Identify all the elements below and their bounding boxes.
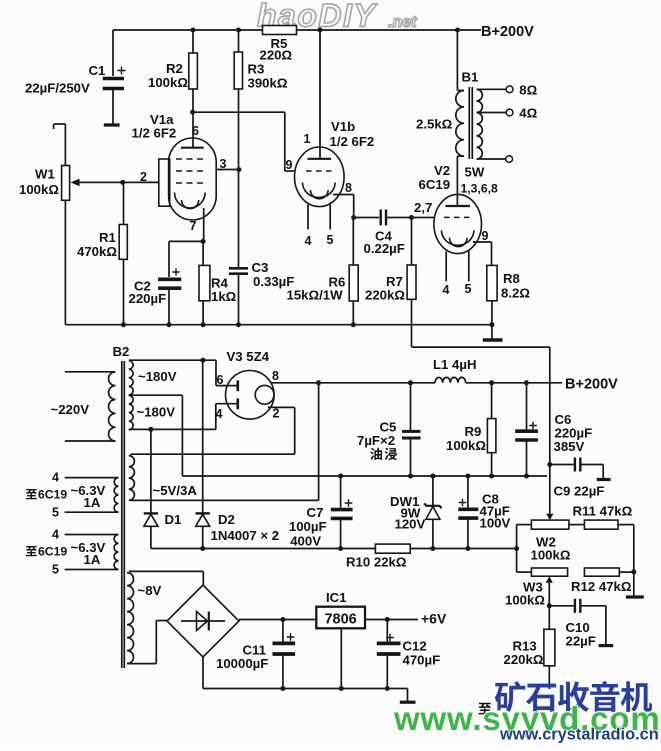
label W1 bbox=[19, 167, 59, 198]
svg-text:www.crystalradio.cn: www.crystalradio.cn bbox=[499, 726, 659, 744]
wire B+ top rail bbox=[113, 29, 481, 31]
potentiometer W3 bbox=[517, 568, 568, 606]
svg-text:220Ω: 220Ω bbox=[260, 48, 293, 63]
svg-text:100kΩ: 100kΩ bbox=[19, 182, 59, 197]
wire cathode pin7 V1a bbox=[203, 208, 205, 241]
node C12 neg bbox=[385, 686, 390, 691]
label C6 bbox=[554, 412, 593, 454]
node C7 neg bbox=[338, 546, 343, 551]
svg-text:B+200V: B+200V bbox=[565, 377, 618, 393]
label C4 bbox=[364, 229, 405, 257]
svg-text:1: 1 bbox=[304, 132, 311, 146]
label 8V bbox=[138, 583, 162, 598]
svg-text:10000µF: 10000µF bbox=[216, 656, 268, 671]
svg-text:C7: C7 bbox=[307, 505, 324, 520]
wire pin6 V3 bbox=[216, 360, 238, 385]
transformer B1 core bbox=[469, 87, 472, 159]
svg-text:5: 5 bbox=[52, 563, 59, 577]
tube V1b heater stubs bbox=[308, 203, 330, 230]
wire ground rail bbox=[65, 324, 492, 326]
rectifier bridge bbox=[167, 571, 239, 657]
label pin7 V1a bbox=[190, 219, 197, 233]
node C8 neg bbox=[465, 546, 470, 551]
svg-text:15kΩ/1W: 15kΩ/1W bbox=[287, 288, 344, 303]
resistor R6 bbox=[349, 218, 358, 325]
label C7 bbox=[289, 505, 327, 549]
svg-text:4: 4 bbox=[443, 283, 450, 297]
resistor R4 bbox=[199, 241, 210, 324]
svg-text:7806: 7806 bbox=[324, 612, 356, 628]
wire 180V centertap bbox=[129, 395, 183, 476]
label C3 bbox=[252, 260, 295, 289]
svg-text:1kΩ: 1kΩ bbox=[211, 289, 237, 304]
label pin3 V1a bbox=[220, 157, 227, 171]
node D2 neg bbox=[200, 546, 205, 551]
zener DW1 bbox=[424, 474, 441, 549]
capacitor C3 bbox=[229, 268, 248, 324]
tube V2 envelope bbox=[434, 194, 482, 253]
transformer B1 primary bbox=[456, 30, 464, 156]
label zhi bottom bbox=[479, 703, 491, 715]
label 180V-2 bbox=[137, 405, 176, 420]
label 2.5k bbox=[416, 117, 453, 132]
wire tap common bbox=[477, 156, 513, 163]
transformer B2 core bbox=[122, 361, 125, 668]
label 1368 bbox=[461, 182, 498, 196]
svg-text:7µF×2: 7µF×2 bbox=[357, 433, 395, 448]
label pin1 V1b bbox=[304, 132, 311, 146]
node rail junction R2 bbox=[191, 28, 196, 33]
wire bridge plus rail bbox=[239, 620, 316, 622]
svg-text:R8: R8 bbox=[503, 271, 520, 286]
svg-text:6C19: 6C19 bbox=[38, 545, 67, 559]
label R5 bbox=[260, 36, 293, 63]
label 220V bbox=[51, 402, 90, 417]
label R7 bbox=[365, 274, 405, 303]
wire plate V2 bbox=[456, 156, 458, 206]
label R9 bbox=[446, 424, 486, 453]
label pin8 V1b bbox=[345, 181, 352, 195]
label C8 bbox=[480, 492, 511, 531]
svg-text:6C19: 6C19 bbox=[419, 177, 451, 192]
svg-text:D1: D1 bbox=[165, 512, 182, 527]
wire bridge neg rail bbox=[203, 657, 408, 689]
wire input bbox=[54, 124, 66, 166]
svg-text:V3 5Z4: V3 5Z4 bbox=[227, 349, 270, 364]
svg-text:4: 4 bbox=[52, 528, 59, 542]
node IC1 neg bbox=[339, 686, 344, 691]
resistor R2 bbox=[189, 30, 198, 112]
label D2 bbox=[218, 512, 235, 527]
node D2 tap bbox=[200, 358, 205, 363]
potentiometer W2 bbox=[517, 514, 569, 529]
label 1N4007 bbox=[211, 528, 280, 543]
node C11 neg bbox=[280, 686, 285, 691]
label 180V-1 bbox=[138, 369, 177, 384]
svg-text:22µF/250V: 22µF/250V bbox=[25, 81, 90, 96]
label R12 bbox=[571, 579, 632, 594]
tube V1b envelope bbox=[295, 147, 345, 207]
capacitor C2 bbox=[158, 241, 203, 324]
transformer B2 winding 6.3V-1 bbox=[65, 478, 119, 513]
label C11 bbox=[216, 643, 268, 672]
svg-text:C12: C12 bbox=[403, 639, 427, 654]
label 5W bbox=[465, 165, 485, 180]
transformer B2 winding 180V-1 bbox=[129, 360, 216, 395]
svg-text:8.2Ω: 8.2Ω bbox=[501, 286, 530, 301]
label V1b bbox=[330, 119, 375, 149]
capacitor C11 bbox=[273, 620, 296, 689]
resistor R7 bbox=[407, 218, 416, 348]
svg-text:8: 8 bbox=[345, 181, 352, 195]
label IC1 bbox=[326, 590, 347, 605]
capacitor C5 bbox=[402, 383, 421, 476]
watermark haoDIY bbox=[257, 0, 417, 34]
wire B+ rail after V3 bbox=[272, 382, 436, 384]
node gnd C3 bbox=[236, 322, 241, 327]
label C5 bbox=[357, 420, 397, 461]
node cathode junction V1a bbox=[201, 239, 206, 244]
node 5V B+ junction bbox=[316, 380, 321, 385]
svg-text:100kΩ: 100kΩ bbox=[531, 548, 571, 563]
svg-text:385V: 385V bbox=[554, 439, 585, 454]
label 4ohm bbox=[519, 106, 537, 121]
svg-text:7: 7 bbox=[190, 219, 197, 233]
label pin2 V3 bbox=[273, 407, 280, 421]
svg-text:100µF: 100µF bbox=[289, 519, 327, 534]
svg-text:100kΩ: 100kΩ bbox=[148, 75, 188, 90]
label B1 bbox=[462, 70, 479, 85]
svg-text:.net: .net bbox=[388, 14, 417, 31]
wire W2W3 left bbox=[516, 525, 518, 573]
resistor R8 bbox=[487, 265, 497, 324]
capacitor C7 bbox=[331, 474, 353, 549]
node DW1 neg bbox=[430, 546, 435, 551]
svg-text:390kΩ: 390kΩ bbox=[248, 76, 288, 91]
capacitor C1 bbox=[103, 30, 126, 124]
svg-text:4Ω: 4Ω bbox=[519, 106, 537, 121]
node gnd R1 bbox=[121, 322, 126, 327]
potentiometer W1 bbox=[62, 166, 123, 325]
node C6 bottom bbox=[524, 474, 529, 479]
wire grid V2 bbox=[412, 217, 435, 219]
svg-text:2,7: 2,7 bbox=[414, 200, 432, 215]
tube V1b cathode bbox=[303, 183, 336, 199]
node C4 left junction bbox=[351, 215, 356, 220]
svg-text:4: 4 bbox=[216, 407, 223, 421]
svg-text:100kΩ: 100kΩ bbox=[446, 438, 486, 453]
tube V2 cathode bbox=[442, 230, 474, 246]
ground C9 bbox=[597, 478, 611, 481]
label V2 bbox=[419, 163, 451, 192]
node rail junction V1b bbox=[318, 28, 323, 33]
node screen junction bbox=[236, 167, 241, 172]
label C10 bbox=[566, 620, 596, 649]
label R4 bbox=[211, 276, 237, 305]
tube V2 plate bar bbox=[446, 205, 471, 207]
transformer B2 primary 220V bbox=[65, 372, 116, 441]
node rail junction R3 bbox=[236, 28, 241, 33]
wire IC1 gnd pin bbox=[340, 628, 342, 688]
label pins45 V2 bbox=[443, 282, 472, 297]
label pins27 V2 bbox=[414, 200, 432, 215]
tube V1b grid dashed bbox=[306, 170, 333, 172]
node C11 top bbox=[280, 617, 285, 622]
svg-text:C9 22µF: C9 22µF bbox=[554, 484, 605, 499]
resistor R1 bbox=[119, 182, 127, 324]
svg-text:4: 4 bbox=[305, 234, 312, 248]
tube V1b plate bar bbox=[308, 158, 332, 160]
svg-text:22µF: 22µF bbox=[566, 634, 596, 649]
tube V2 heater stubs bbox=[446, 250, 469, 281]
resistor R3 bbox=[234, 30, 242, 89]
node gnd R6 bbox=[351, 322, 356, 327]
diode D1 bbox=[144, 429, 158, 548]
svg-text:C1: C1 bbox=[89, 63, 106, 78]
svg-text:~220V: ~220V bbox=[51, 402, 90, 417]
svg-text:V1b: V1b bbox=[331, 119, 355, 134]
node R9 top bbox=[489, 380, 494, 385]
node C6 top bbox=[524, 380, 529, 385]
wire R3 down to C3 bbox=[238, 89, 240, 267]
resistor R13 bbox=[544, 606, 555, 689]
label C2 bbox=[129, 279, 167, 307]
label R13 bbox=[504, 639, 544, 668]
label R3 bbox=[248, 62, 288, 91]
tube V1a plate bar bbox=[181, 147, 204, 149]
svg-text:R11 47kΩ: R11 47kΩ bbox=[573, 504, 633, 519]
label pin8 V3 bbox=[272, 369, 279, 383]
svg-text:220µF: 220µF bbox=[129, 291, 167, 306]
resistor R5 bbox=[263, 26, 297, 35]
node R9 bottom bbox=[489, 474, 494, 479]
node neg W2 bbox=[514, 546, 519, 551]
resistor R11 bbox=[569, 520, 634, 529]
capacitor C9 bbox=[547, 458, 603, 479]
tube V2 grid dashed bbox=[444, 216, 470, 218]
svg-text:IC1: IC1 bbox=[326, 590, 347, 605]
svg-text:9: 9 bbox=[482, 229, 489, 243]
watermark green url bbox=[393, 700, 661, 737]
svg-text:R12 47kΩ: R12 47kΩ bbox=[571, 579, 632, 594]
wire psu ground line bbox=[182, 475, 547, 477]
node gnd R8 bbox=[489, 322, 494, 327]
tube V3 plate bars bbox=[237, 380, 240, 409]
svg-text:2.5kΩ: 2.5kΩ bbox=[416, 117, 453, 132]
svg-text:~180V: ~180V bbox=[137, 405, 176, 420]
svg-text:220kΩ: 220kΩ bbox=[365, 288, 405, 303]
wire R7 to bias bbox=[412, 347, 550, 514]
svg-text:5W: 5W bbox=[465, 165, 485, 180]
label V3 bbox=[227, 349, 270, 364]
wire negative rail bbox=[151, 548, 376, 550]
svg-text:1N4007 × 2: 1N4007 × 2 bbox=[211, 528, 280, 543]
tube V1a cathode bbox=[175, 193, 206, 209]
tube V3 cathode circle bbox=[255, 385, 274, 404]
label 5V3A bbox=[153, 483, 198, 498]
svg-text:9: 9 bbox=[286, 158, 293, 172]
svg-text:6: 6 bbox=[192, 124, 199, 138]
label D1 bbox=[165, 512, 182, 527]
label B2 bbox=[113, 344, 130, 359]
label +6V bbox=[421, 611, 447, 627]
label R11 bbox=[573, 504, 633, 519]
label pin9 V1b bbox=[286, 158, 293, 172]
svg-text:L1 4µH: L1 4µH bbox=[433, 357, 477, 372]
label B+200V top bbox=[481, 24, 534, 40]
svg-text:R1: R1 bbox=[99, 230, 116, 245]
node C4 right junction bbox=[409, 215, 414, 220]
watermark crystalradio url bbox=[499, 726, 659, 744]
wire V1a plate to V1b grid bbox=[193, 112, 295, 171]
node C5 bottom bbox=[408, 474, 413, 479]
svg-text:5: 5 bbox=[465, 282, 472, 296]
node V1a plate junction bbox=[190, 110, 195, 115]
node C12 top bbox=[385, 617, 390, 622]
capacitor C6 bbox=[515, 383, 538, 476]
svg-text:1/2 6F2: 1/2 6F2 bbox=[132, 126, 177, 141]
diode D2 bbox=[196, 360, 210, 548]
svg-text:0.22µF: 0.22µF bbox=[364, 241, 405, 256]
resistor R9 bbox=[487, 383, 496, 476]
svg-text:6: 6 bbox=[217, 373, 224, 387]
svg-text:W1: W1 bbox=[35, 167, 55, 182]
svg-text:2: 2 bbox=[140, 170, 147, 184]
inductor L1 bbox=[435, 377, 562, 382]
node gnd R4 bbox=[201, 322, 206, 327]
svg-text:1/2 6F2: 1/2 6F2 bbox=[330, 134, 375, 149]
label pins45 V1b bbox=[305, 233, 334, 248]
svg-text:2: 2 bbox=[273, 407, 280, 421]
label V1a bbox=[132, 112, 177, 141]
svg-text:~5V/3A: ~5V/3A bbox=[153, 483, 198, 498]
ground R12 bbox=[626, 595, 644, 598]
label R6 bbox=[287, 275, 346, 303]
ground C1 bbox=[104, 123, 120, 126]
svg-text:8: 8 bbox=[272, 369, 279, 383]
wire tap 8ohm bbox=[477, 86, 514, 93]
label R2 bbox=[148, 61, 188, 90]
label B+200V psu bbox=[565, 377, 618, 393]
wire pin4 V3 bbox=[216, 403, 238, 405]
capacitor C10 bbox=[549, 599, 606, 644]
svg-text:100V: 100V bbox=[480, 516, 511, 531]
svg-text:470kΩ: 470kΩ bbox=[77, 244, 117, 259]
svg-text:R2: R2 bbox=[166, 61, 183, 76]
svg-text:1A: 1A bbox=[84, 495, 101, 510]
label C12 bbox=[403, 639, 441, 668]
resistor R12 bbox=[584, 568, 633, 576]
transformer B2 winding 8V bbox=[127, 571, 203, 663]
label 6.3V-2 bbox=[26, 528, 106, 577]
label W2 bbox=[531, 535, 571, 563]
wire cathode pin9 V2 bbox=[473, 242, 492, 265]
capacitor C12 bbox=[377, 620, 401, 689]
label pin4 V3 bbox=[216, 407, 223, 421]
label DW1 bbox=[390, 494, 426, 532]
label R8 bbox=[501, 271, 530, 301]
svg-text:+6V: +6V bbox=[421, 611, 447, 627]
wire tap 4ohm bbox=[477, 109, 514, 116]
label pin6 V1a bbox=[192, 124, 199, 138]
wire 5V bottom to B+ bbox=[318, 383, 320, 501]
node D1 tap bbox=[148, 427, 153, 432]
svg-text:4: 4 bbox=[52, 471, 59, 485]
label C9 bbox=[554, 484, 605, 499]
label R1 bbox=[77, 230, 117, 259]
transformer B2 winding 6.3V-2 bbox=[65, 535, 119, 570]
transformer B2 winding 180V-2 bbox=[129, 395, 216, 429]
svg-text:5: 5 bbox=[52, 506, 59, 520]
tube V1a grids dashed bbox=[176, 159, 207, 183]
node rail junction B1 bbox=[455, 28, 460, 33]
svg-text:120V: 120V bbox=[395, 517, 426, 532]
wire plate pin1 V1b bbox=[319, 30, 321, 159]
ground amp bbox=[483, 325, 503, 340]
svg-text:100kΩ: 100kΩ bbox=[505, 593, 545, 608]
svg-text:R10 22kΩ: R10 22kΩ bbox=[346, 555, 407, 570]
label 6.3V-1 bbox=[26, 471, 106, 520]
label pin9 V2 bbox=[482, 229, 489, 243]
transformer B1 secondary bbox=[477, 89, 483, 159]
node R12 right bbox=[631, 569, 636, 574]
label C1 bbox=[25, 63, 105, 96]
capacitor C4 bbox=[354, 210, 412, 226]
capacitor C8 bbox=[458, 474, 478, 549]
label W3 bbox=[505, 580, 545, 608]
label R10 bbox=[346, 555, 407, 570]
regulator IC1 7806 bbox=[316, 607, 365, 629]
watermark crystalradio cjk bbox=[495, 681, 652, 712]
svg-text:5: 5 bbox=[327, 233, 334, 247]
svg-text:B+200V: B+200V bbox=[481, 24, 534, 40]
tube V3 envelope bbox=[226, 371, 275, 420]
svg-text:220kΩ: 220kΩ bbox=[504, 652, 544, 667]
svg-text:D2: D2 bbox=[218, 512, 235, 527]
wire screen pin3 V1a bbox=[216, 169, 239, 171]
svg-text:B1: B1 bbox=[462, 70, 479, 85]
ground 6V rail bbox=[400, 689, 416, 703]
node W1 wiper junction bbox=[120, 180, 125, 185]
node C5 top bbox=[408, 380, 413, 385]
svg-text:V2: V2 bbox=[434, 163, 450, 178]
svg-text:1A: 1A bbox=[84, 552, 101, 567]
tube V1a envelope bbox=[169, 138, 217, 220]
svg-text:B2: B2 bbox=[113, 344, 130, 359]
wire grid V1a bbox=[123, 181, 159, 183]
wire cathode pin8 V1b bbox=[333, 195, 354, 218]
svg-text:470µF: 470µF bbox=[403, 653, 441, 668]
wire R11R12 right bbox=[633, 525, 635, 596]
resistor R10 bbox=[375, 544, 516, 553]
svg-text:8Ω: 8Ω bbox=[519, 83, 537, 98]
tube V1a grid box bbox=[159, 159, 170, 206]
svg-text:~8V: ~8V bbox=[138, 583, 162, 598]
transformer B2 winding 5V bbox=[129, 454, 319, 500]
svg-text:400V: 400V bbox=[290, 534, 321, 549]
label pin2 V1a bbox=[140, 170, 147, 184]
node gnd C2 bbox=[167, 322, 172, 327]
label 8ohm bbox=[519, 83, 537, 98]
wire pin2 V3 to 5V bbox=[268, 407, 295, 454]
wire IC1 output bbox=[365, 619, 418, 621]
node W3 wiper junction bbox=[547, 603, 552, 608]
svg-text:R3: R3 bbox=[248, 62, 265, 77]
svg-text:~180V: ~180V bbox=[138, 369, 177, 384]
wire plate pin6 V1a bbox=[192, 112, 194, 148]
label pin6 V3 bbox=[217, 373, 224, 387]
svg-text:R9: R9 bbox=[465, 424, 482, 439]
